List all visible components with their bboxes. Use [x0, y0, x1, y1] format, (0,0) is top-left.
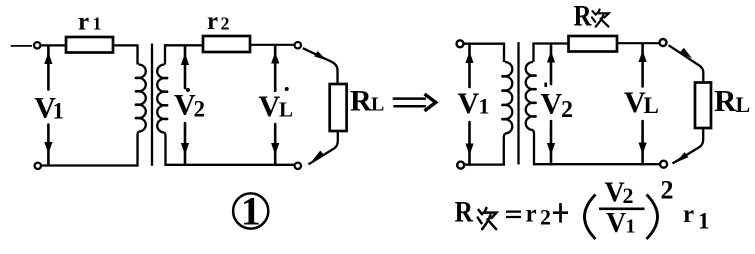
svg-text:r: r — [207, 8, 218, 35]
node: right bottom-right open circle — [660, 161, 667, 168]
resistor RL (right) — [695, 83, 711, 129]
svg-text:2: 2 — [194, 97, 206, 122]
transformer T2 secondary winding — [534, 44, 569, 63]
svg-text:1: 1 — [626, 215, 636, 237]
wire: terminal to r1 — [41, 44, 66, 46]
wire: Rci to top-right terminal — [617, 42, 660, 44]
transformer T1 core — [151, 44, 153, 166]
svg-text:r: r — [526, 200, 537, 227]
voltage arrow VL — [274, 46, 277, 91]
voltage arrow V1 (right) — [468, 45, 471, 87]
resistor RL — [330, 84, 347, 131]
svg-text:2: 2 — [561, 97, 573, 123]
voltage arrow V2 — [184, 46, 187, 88]
svg-text:2: 2 — [623, 183, 634, 208]
svg-text:1: 1 — [241, 189, 261, 234]
svg-text:2: 2 — [221, 13, 230, 33]
svg-text:1: 1 — [479, 94, 490, 119]
svg-text:L: L — [371, 94, 384, 116]
node: input terminal (top-left open circle) — [34, 42, 40, 48]
transformer T2 primary winding — [505, 62, 512, 134]
resistor r2 — [203, 36, 250, 52]
svg-text:V: V — [541, 87, 563, 120]
svg-text:2: 2 — [661, 175, 674, 204]
svg-text:L: L — [736, 92, 751, 117]
wire: primary bottom — [464, 134, 505, 165]
svg-text:R: R — [350, 85, 372, 118]
svg-text:r: r — [78, 9, 89, 36]
svg-text:L: L — [279, 98, 293, 122]
transformer T1 secondary winding — [165, 45, 203, 64]
transformer T1 primary winding — [139, 65, 146, 132]
node: top-right open circle — [295, 42, 301, 48]
wire: primary bottom to terminal — [41, 132, 139, 166]
node: right top-left open circle — [457, 40, 464, 47]
wire: input lead — [11, 45, 32, 47]
svg-text:L: L — [644, 93, 659, 118]
node: bottom-left open circle — [35, 163, 41, 169]
transformer T2 core — [517, 42, 519, 164]
implication arrow — [393, 97, 426, 100]
svg-text:R: R — [455, 196, 474, 229]
wire: r2 to top-right terminal — [250, 44, 295, 46]
wire: terminal to primary top — [464, 44, 504, 62]
svg-text:1: 1 — [93, 14, 102, 34]
wire: top hook to RL — [303, 48, 338, 84]
wire: top hook to RL (right) — [669, 45, 704, 82]
wire: secondary bottom — [165, 133, 295, 165]
svg-text:r: r — [683, 201, 694, 228]
svg-text:1: 1 — [698, 209, 710, 234]
svg-text:R: R — [714, 83, 737, 118]
voltage arrow V2 (right) — [550, 45, 553, 85]
wire: bottom hook from RL — [309, 131, 338, 164]
svg-text:2: 2 — [540, 205, 551, 230]
wire: bottom hook from RL (right) — [673, 128, 704, 164]
svg-text:1: 1 — [53, 98, 65, 123]
svg-text:V: V — [606, 208, 626, 239]
node: bottom-right open circle — [295, 163, 301, 169]
node: right bottom-left open circle — [457, 162, 464, 169]
voltage arrow VL (right) — [641, 44, 644, 86]
svg-text:V: V — [458, 87, 480, 120]
voltage arrow V1 — [47, 46, 50, 89]
wire: secondary bottom — [533, 130, 660, 164]
svg-text:V: V — [259, 90, 281, 123]
node: right top-right open circle — [660, 39, 667, 46]
figure number 1 (circled) — [233, 193, 268, 228]
wire: r1 to transformer primary top — [113, 45, 138, 64]
svg-text:R: R — [574, 0, 592, 33]
resistor r1 — [66, 37, 113, 53]
resistor Rci — [569, 36, 618, 52]
